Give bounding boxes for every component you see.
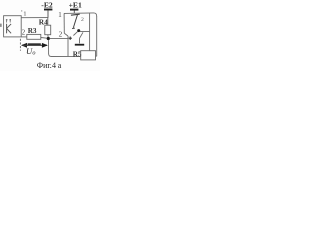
svg-text:2: 2 [59, 30, 63, 38]
wire stub at left image edge [0, 24, 2, 27]
svg-text:а: а [58, 61, 62, 70]
background [0, 0, 100, 71]
optocoupler U1 input box [4, 16, 22, 37]
phototransistor box left edge [63, 13, 65, 33]
light arrow a [6, 19, 8, 20]
wire R3 to node [41, 37, 47, 40]
Uo arrow shaft [22, 44, 47, 46]
resistor R3 [27, 34, 41, 39]
light arrow b [10, 19, 12, 20]
svg-text:R3: R3 [28, 27, 37, 35]
photodiode VD1 lower edge [7, 28, 12, 33]
transistor T2 label stem [72, 15, 77, 29]
wire pin2 [21, 36, 27, 38]
wire rail right stub [96, 55, 97, 57]
node B junction dot [77, 29, 80, 32]
wire -E2 stem [47, 10, 49, 17]
Uo arrow left head [21, 43, 27, 48]
svg-text:2: 2 [22, 30, 26, 37]
svg-text:o: o [32, 49, 35, 56]
resistor R5 [81, 51, 96, 60]
wire output diagonal [80, 32, 84, 38]
svg-text:-E2: -E2 [41, 0, 53, 9]
output terminal bar [75, 44, 84, 46]
wire rail rounded corner [49, 54, 52, 57]
Uo arrow shaft thick middle [28, 43, 41, 45]
wire emitter diagonal [73, 32, 77, 36]
svg-text:2: 2 [81, 17, 84, 23]
terminal -E2 bar [44, 9, 52, 11]
svg-text:+E1: +E1 [69, 0, 82, 9]
svg-text:Фиг.: Фиг. [37, 61, 52, 70]
resistor R4 [45, 25, 51, 35]
wire node A down [48, 40, 50, 54]
photodiode VD1 upper edge [7, 24, 12, 29]
wire pin1 top [21, 17, 48, 19]
wire node B right [80, 31, 90, 33]
wire emitter lead down [67, 36, 69, 56]
Uo arrow right head [42, 43, 48, 48]
wire top right rounded corner [94, 13, 97, 16]
Uo reference dashed line [19, 39, 21, 51]
node A junction dot [47, 37, 50, 40]
scan speck [21, 10, 22, 11]
wire output stem [79, 38, 81, 43]
wire node A right [50, 38, 68, 40]
svg-text:1: 1 [58, 12, 62, 19]
wire jog [64, 33, 68, 36]
wire R4 bottom [47, 35, 49, 38]
photodiode VD1 bar [6, 24, 8, 34]
wire +E1 stem [73, 11, 75, 14]
plus polarity mark [69, 37, 72, 39]
terminal +E1 bar [70, 9, 78, 11]
svg-text:4: 4 [52, 61, 56, 70]
wire bottom rail [51, 56, 81, 58]
wire R4 top [47, 18, 49, 26]
wire outer right vertical [96, 16, 98, 56]
wire collector right vertical [89, 13, 91, 50]
transistor T2 label bar [71, 14, 80, 15]
svg-text:1: 1 [23, 11, 26, 18]
wire top right [64, 12, 94, 14]
